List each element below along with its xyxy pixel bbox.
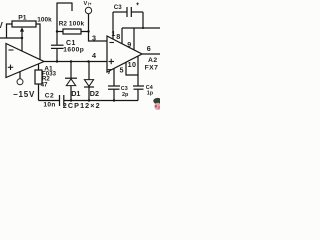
svg-text:1p: 1p <box>147 91 154 97</box>
svg-text:1: 1 <box>111 29 115 38</box>
svg-text:10n: 10n <box>43 102 55 109</box>
svg-text:7: 7 <box>107 67 111 76</box>
svg-text:100k: 100k <box>37 17 52 24</box>
svg-text:3: 3 <box>92 33 96 42</box>
svg-text:P1: P1 <box>18 14 27 21</box>
svg-text:9: 9 <box>127 40 131 49</box>
svg-text:4: 4 <box>92 51 96 60</box>
svg-text:100k: 100k <box>69 21 85 28</box>
svg-text:−15V: −15V <box>13 90 35 99</box>
svg-text:D2: D2 <box>90 89 99 98</box>
svg-text:C3: C3 <box>114 4 122 11</box>
svg-text:5: 5 <box>120 66 124 75</box>
svg-text:2p: 2p <box>122 92 129 98</box>
svg-text:D1: D1 <box>71 89 80 98</box>
svg-text:2CP12×2: 2CP12×2 <box>63 101 101 110</box>
svg-text:10: 10 <box>128 60 137 69</box>
svg-text:47: 47 <box>41 82 48 89</box>
svg-text:6: 6 <box>147 44 151 53</box>
svg-text:R2: R2 <box>59 21 68 28</box>
svg-text:A2: A2 <box>148 57 158 64</box>
svg-text:1600p: 1600p <box>63 46 84 53</box>
svg-text:C2: C2 <box>45 92 54 99</box>
svg-text:i+: i+ <box>88 1 92 6</box>
svg-text:8: 8 <box>116 32 120 41</box>
svg-text:FX7: FX7 <box>145 64 159 71</box>
